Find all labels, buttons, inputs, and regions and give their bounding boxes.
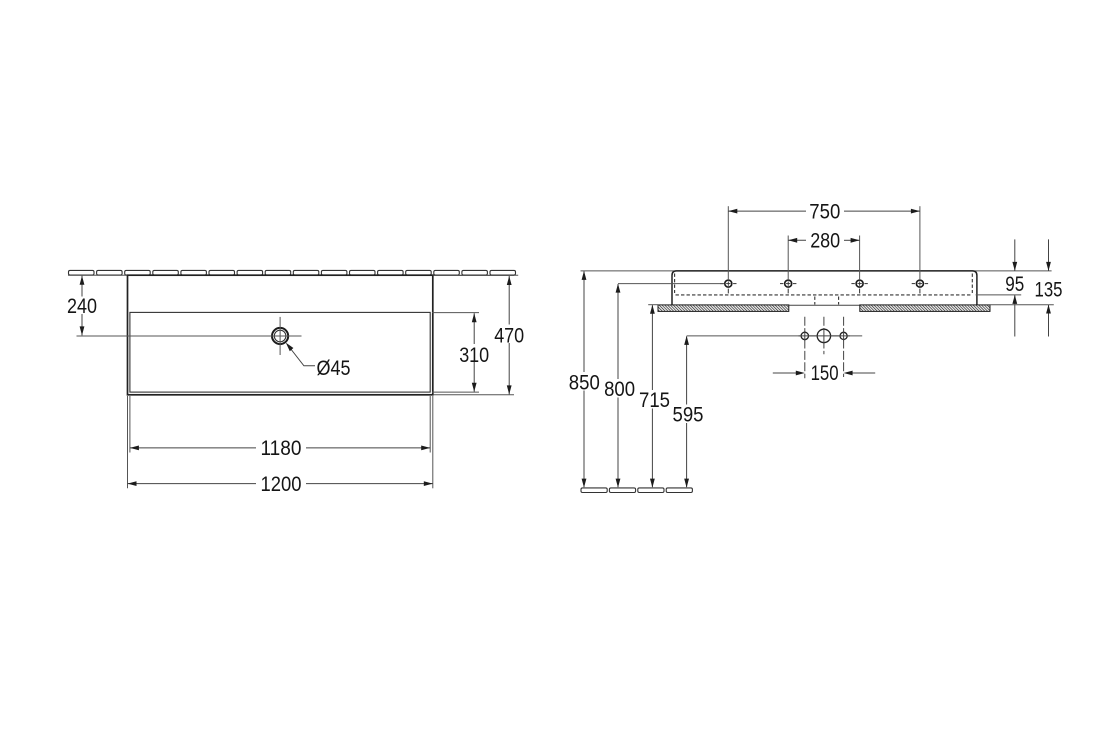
svg-text:595: 595 — [673, 404, 704, 427]
svg-text:850: 850 — [569, 371, 600, 394]
svg-text:240: 240 — [67, 295, 97, 318]
svg-text:750: 750 — [809, 200, 840, 223]
svg-text:800: 800 — [604, 378, 635, 401]
svg-text:1180: 1180 — [261, 437, 302, 460]
svg-text:Ø45: Ø45 — [317, 357, 351, 380]
svg-text:280: 280 — [810, 230, 840, 253]
svg-text:95: 95 — [1005, 273, 1024, 296]
svg-text:470: 470 — [494, 324, 524, 347]
svg-text:715: 715 — [639, 389, 670, 412]
svg-text:135: 135 — [1035, 278, 1063, 301]
svg-text:150: 150 — [811, 362, 839, 385]
svg-text:1200: 1200 — [261, 473, 302, 496]
svg-text:310: 310 — [459, 344, 489, 367]
